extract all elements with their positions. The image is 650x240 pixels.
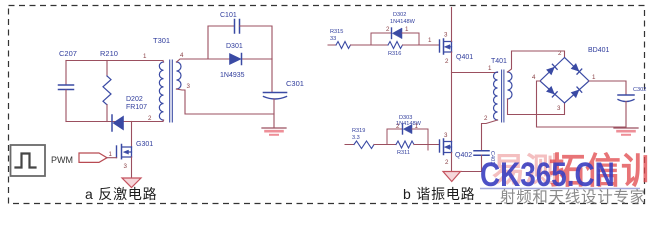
resistor R319 bbox=[345, 128, 374, 149]
svg-text:Q401: Q401 bbox=[456, 54, 473, 61]
capacitor C401 bbox=[452, 151, 496, 172]
svg-text:D202: D202 bbox=[126, 96, 143, 103]
transistor Q402 bbox=[440, 132, 473, 166]
transistor Q401 bbox=[440, 32, 474, 66]
svg-text:C207: C207 bbox=[59, 49, 77, 58]
svg-text:C101: C101 bbox=[220, 12, 237, 19]
svg-text:4: 4 bbox=[532, 74, 536, 81]
svg-text:R316: R316 bbox=[388, 51, 401, 57]
svg-text:3.3: 3.3 bbox=[352, 135, 360, 141]
svg-text:3: 3 bbox=[187, 83, 191, 90]
svg-text:1: 1 bbox=[143, 53, 147, 60]
bridge rectifier BD401 bbox=[532, 47, 610, 112]
svg-text:T401: T401 bbox=[491, 58, 507, 65]
wire R319 to parallel pair bbox=[374, 129, 387, 145]
earth ground under C301 bbox=[262, 128, 286, 135]
svg-text:1N4935: 1N4935 bbox=[220, 72, 245, 79]
svg-text:2: 2 bbox=[484, 115, 488, 122]
wire T401 pin2 to C401 bbox=[482, 120, 498, 151]
wire T301 pin4 / D301 anode row bbox=[177, 59, 273, 62]
svg-text:2: 2 bbox=[445, 58, 449, 65]
svg-text:D302: D302 bbox=[393, 12, 406, 18]
svg-text:1: 1 bbox=[109, 151, 113, 158]
svg-text:4: 4 bbox=[180, 52, 184, 59]
svg-text:2: 2 bbox=[558, 50, 562, 57]
svg-text:3: 3 bbox=[444, 132, 448, 139]
wire switch node vertical bbox=[451, 52, 453, 142]
svg-text:BD401: BD401 bbox=[588, 47, 610, 54]
svg-text:3: 3 bbox=[557, 105, 561, 112]
resistor R311 bbox=[387, 141, 428, 156]
svg-text:G301: G301 bbox=[136, 141, 153, 148]
ground (power gnd) under Q402 bbox=[443, 172, 461, 182]
transistor Q301 (G301) bbox=[117, 141, 154, 159]
svg-text:PWM: PWM bbox=[51, 155, 73, 165]
capacitor C301 bbox=[264, 79, 304, 128]
wire D301 cathode to C301 bbox=[271, 59, 273, 92]
svg-text:a 反激电路: a 反激电路 bbox=[85, 186, 157, 202]
svg-text:C301: C301 bbox=[286, 79, 304, 88]
ground (power gnd) under Q301 bbox=[122, 178, 141, 188]
diode D202 FR107 bbox=[112, 96, 147, 131]
svg-text:3: 3 bbox=[124, 163, 128, 170]
diode D301 1N4935 bbox=[220, 43, 245, 79]
resistor R210 bbox=[100, 49, 118, 122]
wire bridge pin1 to C302 bbox=[589, 81, 626, 95]
svg-text:R315: R315 bbox=[330, 29, 343, 35]
earth ground under C302 bbox=[614, 128, 638, 135]
watermark bbox=[480, 150, 650, 206]
port arrow PWM bbox=[79, 153, 107, 162]
svg-text:1: 1 bbox=[428, 37, 432, 44]
svg-text:Q402: Q402 bbox=[455, 152, 472, 159]
svg-text:射频和天线设计专家: 射频和天线设计专家 bbox=[500, 188, 646, 206]
wire bridge pin4 to output negative rail bbox=[537, 81, 627, 127]
wire to Q401 gate bbox=[419, 44, 440, 46]
svg-text:2: 2 bbox=[148, 115, 152, 122]
svg-text:33: 33 bbox=[330, 36, 336, 42]
svg-text:R319: R319 bbox=[352, 128, 365, 134]
resistor R315 bbox=[328, 29, 351, 49]
capacitor C207 bbox=[59, 49, 77, 122]
svg-text:FR107: FR107 bbox=[126, 104, 147, 111]
svg-text:3: 3 bbox=[444, 32, 448, 39]
wire to Q402 gate bbox=[428, 144, 440, 146]
svg-text:1: 1 bbox=[405, 26, 409, 33]
svg-text:b 谐振电路: b 谐振电路 bbox=[403, 186, 475, 202]
PWM pulse source box bbox=[11, 145, 46, 176]
capacitor C302 bbox=[618, 87, 646, 127]
capacitor C101 bbox=[208, 12, 272, 59]
svg-text:R210: R210 bbox=[100, 49, 118, 58]
wire PWM to gate bbox=[107, 157, 117, 159]
svg-text:D301: D301 bbox=[226, 43, 243, 50]
svg-text:2: 2 bbox=[445, 159, 449, 166]
wire Q301 source to ground bbox=[131, 157, 133, 178]
wire R315 to parallel pair bbox=[351, 33, 372, 45]
svg-text:C302: C302 bbox=[633, 87, 646, 93]
wire Q401 drain up bbox=[451, 8, 453, 42]
svg-text:1N4148W: 1N4148W bbox=[390, 19, 416, 25]
wire drain junction to Q301 bbox=[131, 122, 133, 147]
svg-text:R311: R311 bbox=[397, 150, 410, 156]
diode D302 1N4148W bbox=[371, 12, 419, 45]
svg-text:T301: T301 bbox=[153, 36, 170, 45]
wire switch node to T401 pin1 bbox=[452, 72, 498, 74]
wire Q402 source to ground bbox=[451, 153, 453, 172]
diode D303 1N4148W bbox=[387, 115, 428, 150]
transformer T301 bbox=[148, 36, 191, 122]
transformer T401 bbox=[484, 58, 512, 122]
svg-text:2: 2 bbox=[386, 26, 390, 33]
wire bottom rail (clamp net) bbox=[66, 121, 163, 123]
wire T401 secondary top to bridge bbox=[508, 51, 565, 72]
svg-text:1: 1 bbox=[488, 65, 492, 72]
svg-text:1: 1 bbox=[592, 74, 596, 81]
wire top rail C207 to T301 pin1 bbox=[66, 60, 163, 62]
resistor R316 bbox=[371, 42, 419, 58]
wire T301 pin3 to C301 bottom node bbox=[177, 89, 275, 114]
wire T401 secondary bottom to bridge bbox=[508, 99, 565, 115]
